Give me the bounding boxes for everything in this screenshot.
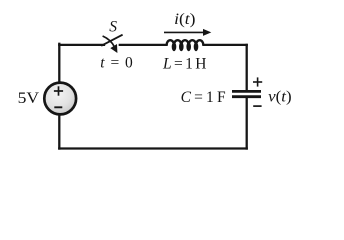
svg-text:5V: 5V	[18, 90, 40, 107]
svg-text:v(t): v(t)	[268, 88, 291, 105]
svg-text:i(t): i(t)	[174, 11, 195, 28]
svg-text:t = 0: t = 0	[100, 55, 133, 72]
svg-text:C = 1 F: C = 1 F	[181, 89, 226, 106]
svg-text:L = 1 H: L = 1 H	[162, 56, 207, 73]
svg-text:S: S	[109, 18, 117, 35]
